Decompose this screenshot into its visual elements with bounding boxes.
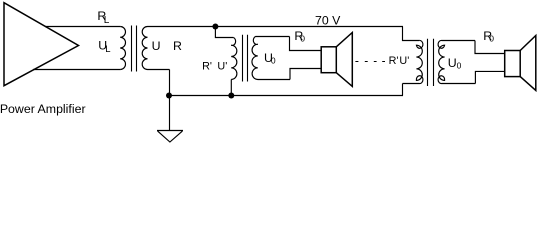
speaker LS2 cone	[520, 36, 536, 91]
transformer T2 primary winding	[231, 38, 237, 80]
wire bottom rail	[170, 95, 404, 97]
transformer T2 core	[243, 35, 248, 82]
node junction dot T2 bottom	[228, 93, 234, 99]
ground	[157, 131, 183, 143]
svg-text:L: L	[105, 44, 110, 55]
svg-text:R: R	[173, 39, 182, 53]
op-amp power amplifier triangle	[4, 3, 79, 86]
transformer T3 primary winding	[403, 40, 423, 83]
svg-text:0: 0	[300, 34, 305, 44]
transformer T3 core	[428, 39, 434, 86]
transformer T3 secondary winding	[438, 40, 475, 83]
svg-text:U: U	[152, 39, 161, 53]
wire T2 primary drop	[215, 27, 233, 38]
transformer T1 primary winding	[120, 27, 125, 70]
svg-text:Power Amplifier: Power Amplifier	[0, 102, 86, 116]
svg-text:0: 0	[271, 56, 276, 66]
svg-text:U': U'	[217, 61, 227, 73]
svg-text:R': R'	[202, 61, 212, 73]
svg-text:U: U	[448, 56, 457, 70]
wire speaker1 top link	[290, 37, 322, 51]
dotted continuation line	[355, 61, 385, 63]
wire amp output bottom	[33, 69, 120, 71]
svg-text:R': R'	[389, 55, 399, 67]
node junction dot T2 top	[212, 24, 218, 30]
wire T3 primary bottom riser	[402, 84, 404, 96]
wire 70V top rail	[148, 26, 404, 28]
speaker LS1 cone	[336, 33, 352, 87]
wire T2 primary bottom riser	[230, 80, 232, 96]
speaker LS2 driver	[505, 51, 521, 77]
wire amp output top	[45, 26, 120, 28]
transformer T1 core	[132, 26, 137, 72]
speaker LS1 driver	[321, 47, 336, 73]
transformer T2 secondary winding	[252, 37, 290, 80]
svg-text:L: L	[104, 15, 110, 26]
wire ground drop	[169, 70, 171, 131]
transformer T1 secondary winding	[142, 27, 147, 70]
wire T1 secondary bottom stub	[148, 69, 170, 71]
svg-text:0: 0	[457, 61, 462, 71]
wire speaker2 bottom link	[475, 71, 504, 83]
wire speaker2 top link	[475, 41, 505, 54]
node junction dot ground	[166, 93, 172, 99]
wire T3 primary top drop	[403, 27, 420, 41]
svg-text:U': U'	[399, 55, 409, 67]
svg-text:70 V: 70 V	[315, 13, 341, 27]
wire speaker1 bottom link	[290, 69, 321, 80]
svg-text:0: 0	[489, 34, 494, 44]
